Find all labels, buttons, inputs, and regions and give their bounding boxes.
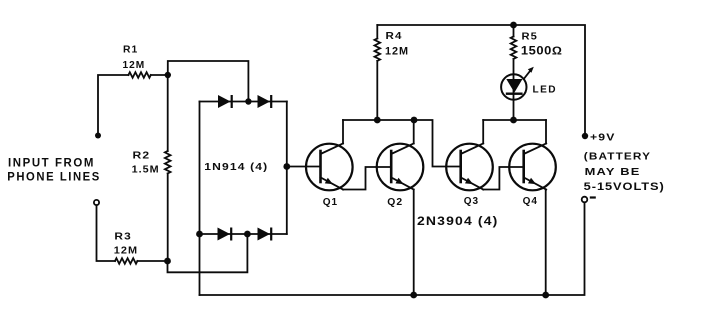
- wire Q4 collector up: [545, 120, 547, 144]
- svg-text:1500Ω: 1500Ω: [521, 46, 563, 58]
- terminal +9V: [582, 133, 588, 139]
- svg-text:Q4: Q4: [523, 195, 538, 207]
- terminal battery minus: [582, 197, 588, 203]
- wire Q3 emitter to Q4 base: [483, 167, 524, 190]
- wire R2 lower to node C: [167, 173, 169, 261]
- wire collector bus 2: [483, 119, 546, 121]
- wire input top lead: [98, 75, 128, 135]
- svg-text:R3: R3: [114, 230, 131, 242]
- resistor R3: [115, 258, 137, 264]
- wire top rail: [377, 25, 585, 136]
- node D junction dot: [244, 231, 251, 238]
- svg-text:1N914 (4): 1N914 (4): [204, 161, 268, 173]
- wire Q1 collector up: [342, 120, 344, 144]
- diode D4: [258, 228, 273, 241]
- diode D2: [258, 95, 273, 108]
- resistor R5: [511, 25, 517, 74]
- svg-text:12M: 12M: [385, 46, 409, 58]
- junction dot Q2 collector: [411, 117, 418, 124]
- transistor Q2: [377, 144, 424, 191]
- wire input bottom lead: [97, 205, 116, 261]
- svg-text:Q1: Q1: [323, 196, 338, 208]
- svg-text:PHONE LINES: PHONE LINES: [7, 171, 101, 183]
- wire right rail lower: [200, 202, 585, 295]
- svg-text:R5: R5: [522, 31, 538, 43]
- svg-text:R1: R1: [123, 44, 138, 56]
- resistor R1: [128, 72, 150, 78]
- junction dot LED bottom: [510, 117, 517, 124]
- wire collector bus 1: [343, 120, 461, 167]
- node A junction dot: [165, 72, 171, 78]
- wire R2 upper: [167, 75, 169, 151]
- junction dot Q2 emitter rail: [410, 292, 417, 299]
- wire Q3 collector up: [482, 120, 484, 144]
- diode D1: [218, 95, 233, 108]
- node C junction dot: [164, 258, 171, 265]
- LED: [501, 74, 526, 120]
- wire Q4 emitter down: [545, 190, 547, 296]
- transistor Q3: [446, 144, 493, 191]
- svg-text:Q2: Q2: [387, 196, 403, 208]
- terminal input top: [95, 133, 101, 139]
- LED light arrow: [525, 67, 534, 78]
- junction dot bridge bottom left: [196, 231, 203, 238]
- svg-text:R4: R4: [386, 30, 403, 42]
- wire bridge bottom row: [200, 233, 287, 235]
- wire node A to bridge top mid: [168, 61, 249, 102]
- wire node E to Q1 base: [287, 166, 321, 168]
- wire Q1 emitter to Q2 base: [343, 167, 391, 190]
- svg-text:LED: LED: [533, 84, 558, 96]
- svg-text:12M: 12M: [114, 245, 138, 257]
- label minus sign: [590, 196, 596, 198]
- wire R1 to node A: [151, 74, 168, 76]
- svg-text:INPUT FROM: INPUT FROM: [8, 157, 95, 169]
- diode D3: [218, 228, 233, 241]
- wire Q2 emitter down: [413, 190, 415, 296]
- wire R3 to node C: [137, 260, 167, 262]
- transistor Q1: [306, 144, 353, 191]
- svg-text:2N3904 (4): 2N3904 (4): [417, 214, 499, 228]
- wire bridge top row: [200, 101, 287, 103]
- junction dot Q4 emitter rail: [542, 292, 549, 299]
- wire node C to bridge bottom mid: [168, 234, 248, 272]
- svg-text:MAY BE: MAY BE: [585, 166, 641, 178]
- resistor R2: [165, 151, 171, 173]
- wire Q2 collector up: [413, 120, 415, 144]
- svg-text:5-15VOLTS): 5-15VOLTS): [584, 181, 665, 193]
- terminal input bottom: [94, 200, 99, 205]
- junction dot R5 top: [510, 22, 517, 29]
- svg-text:1.5M: 1.5M: [132, 164, 160, 176]
- node B junction dot: [245, 98, 251, 104]
- svg-text:R2: R2: [133, 150, 151, 162]
- wire bridge right vertical: [286, 102, 288, 235]
- svg-text:+9V: +9V: [590, 132, 616, 144]
- svg-text:(BATTERY: (BATTERY: [584, 150, 651, 162]
- svg-text:12M: 12M: [123, 59, 146, 71]
- svg-text:Q3: Q3: [464, 195, 479, 207]
- transistor Q4: [509, 144, 556, 191]
- resistor R4: [375, 25, 381, 120]
- junction dot R4 bottom: [374, 117, 381, 124]
- wire bridge left vertical: [199, 102, 201, 296]
- node E junction dot: [283, 163, 290, 170]
